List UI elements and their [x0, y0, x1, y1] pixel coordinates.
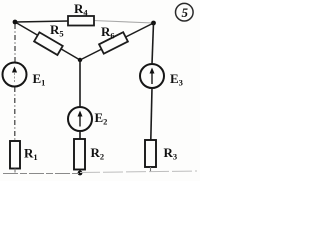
node A [13, 20, 18, 25]
wire center branch C to E2 [79, 60, 81, 107]
resistor R5 [34, 22, 64, 55]
resistor R1 [10, 141, 38, 169]
svg-text:E1: E1 [33, 71, 46, 88]
source E2 [68, 107, 107, 131]
svg-text:R1: R1 [24, 146, 38, 163]
svg-text:E2: E2 [95, 110, 108, 127]
wire R4 right to node B (faint) [93, 21, 154, 24]
node C [78, 58, 82, 62]
svg-text:R2: R2 [91, 145, 105, 162]
node D bottom junction [78, 171, 83, 176]
wire right branch B to E3 [152, 23, 154, 64]
wire R2 bottom to rail [79, 170, 81, 174]
resistor R6 [99, 24, 128, 54]
svg-text:R4: R4 [74, 1, 88, 18]
wire E2 to R2 [79, 131, 81, 139]
wire left branch dash-dot E1 to R1 [14, 87, 16, 141]
svg-text:R3: R3 [164, 145, 178, 162]
wire diagonal B to C through R6 [80, 23, 154, 60]
svg-text:E3: E3 [170, 71, 183, 88]
wire left branch dash-dot A to E1 [14, 24, 16, 63]
wire E3 to R3 [151, 88, 152, 140]
node B [151, 21, 156, 26]
resistor R2 [74, 139, 104, 170]
wire bottom rail right [80, 171, 197, 173]
resistor R3 [145, 140, 177, 167]
resistor R4 [68, 1, 94, 26]
wire top-left horizontal A to R4 [15, 21, 69, 22]
svg-text:5: 5 [182, 5, 189, 20]
source E1 [3, 63, 46, 88]
source E3 [140, 64, 183, 88]
wire R3 bottom to rail [150, 167, 152, 172]
svg-text:R5: R5 [50, 22, 64, 39]
svg-text:R6: R6 [101, 24, 115, 41]
wire diagonal A to C through R5 [15, 22, 80, 60]
wire R1 bottom to rail [14, 169, 16, 173]
figure number 5 circled [176, 3, 194, 21]
wire bottom rail left [3, 173, 80, 175]
